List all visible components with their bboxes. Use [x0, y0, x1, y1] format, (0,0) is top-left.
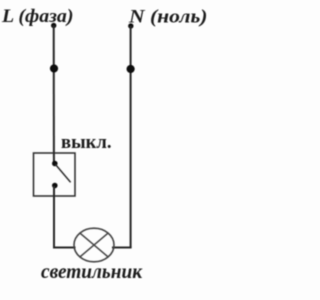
wire lamp left (horizontal)	[53, 247, 76, 249]
wire switch to lamp (vertical)	[53, 186, 55, 248]
svg-text:выкл.: выкл.	[61, 132, 112, 153]
svg-text:L (фаза): L (фаза)	[1, 6, 74, 27]
svg-text:светильник: светильник	[41, 261, 143, 283]
wire N vertical (neutral down)	[130, 26, 132, 248]
svg-text:N (ноль): N (ноль)	[128, 7, 208, 28]
lamp EL1 circle	[74, 228, 114, 262]
switch contact dot top	[52, 161, 58, 167]
wire L vertical (phase down to switch)	[53, 26, 55, 163]
lamp cross stroke 2	[80, 233, 108, 257]
junction dot on N wire	[127, 65, 135, 73]
switch S1 box	[34, 153, 76, 196]
switch lever	[56, 165, 71, 183]
wire lamp right (horizontal from N wire)	[112, 247, 132, 249]
terminal dot L	[51, 23, 56, 28]
terminal dot N	[128, 23, 133, 28]
lamp cross stroke 1	[80, 233, 108, 257]
junction dot on L wire	[50, 64, 58, 72]
switch contact dot bottom	[52, 183, 58, 189]
